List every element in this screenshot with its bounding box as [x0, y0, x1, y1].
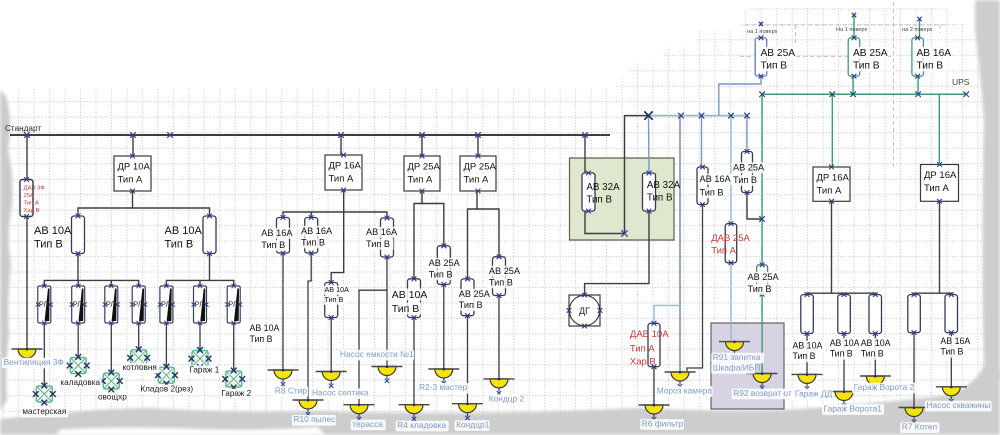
UPS wire to АВ 16А floor2	[917, 76, 919, 94]
main bus Стандарт	[10, 134, 610, 136]
breaker АВ 10А-6	[408, 276, 421, 320]
svg-text:R8 Стир: R8 Стир	[275, 385, 308, 395]
label ДАВ 10А red	[630, 329, 669, 368]
svg-text:ДР 25А: ДР 25А	[464, 162, 497, 173]
breaker АВ 25А-low	[757, 262, 768, 296]
node transfer point	[644, 111, 652, 119]
label ДАВ 25А red	[711, 233, 750, 257]
svg-text:АВ 25А: АВ 25А	[761, 48, 796, 59]
svg-text:АВ 16А: АВ 16А	[301, 226, 333, 236]
breaker АВ 16А-r	[697, 165, 708, 207]
svg-text:Тип В: Тип В	[459, 300, 483, 310]
svg-text:Тип А: Тип А	[630, 344, 655, 355]
svg-text:Тип В: Тип В	[917, 61, 944, 72]
svg-text:РЛ: РЛ	[195, 300, 204, 309]
label АВ 25А-low	[746, 272, 780, 295]
node on bus x=478	[475, 132, 481, 138]
svg-text:ДГ: ДГ	[579, 306, 590, 316]
svg-text:АВ 10А: АВ 10А	[793, 341, 823, 351]
node on blue bus x=701.5	[699, 113, 705, 119]
wire transfer node to АВ 32А-2	[648, 116, 651, 173]
relay bar 1 right	[78, 280, 139, 286]
label АВ 10А-r1	[791, 341, 824, 363]
svg-text:АВ 25А: АВ 25А	[489, 266, 521, 276]
svg-text:АВ 25А: АВ 25А	[459, 289, 491, 299]
breaker ДАВ 10А	[648, 321, 660, 369]
svg-text:мастерская: мастерская	[22, 407, 66, 416]
svg-text:АВ 10А: АВ 10А	[165, 225, 203, 237]
wire ДР 25А-2 to АВ 25А-r	[477, 209, 499, 257]
label АВ 16А-r	[698, 174, 732, 199]
ATS cabinet box (green)	[570, 158, 675, 240]
lamp R91	[719, 341, 750, 359]
breaker ДАВ 25А	[725, 221, 737, 265]
svg-text:АВ 10А: АВ 10А	[830, 338, 860, 348]
label АВ 25А-r	[487, 266, 521, 289]
breaker АВ 10А-r2	[838, 292, 851, 336]
load мастерская	[33, 383, 56, 406]
breaker АВ 32А-1	[582, 171, 595, 214]
wire АВ 25А-low to lamp R92	[761, 294, 763, 373]
svg-text:R10 пылес: R10 пылес	[293, 414, 335, 424]
svg-text:АВ 25А: АВ 25А	[733, 163, 765, 173]
svg-text:каладовка: каладовка	[60, 378, 100, 387]
UPS cabinet box (lavender) Шкаф ИБП	[711, 323, 784, 409]
label АВ 25А floor1	[759, 47, 796, 72]
svg-text:АВ 10А: АВ 10А	[861, 338, 891, 348]
relay РЛ2	[70, 284, 87, 325]
wire РЛ4 to котловня	[138, 323, 140, 350]
label Кондцр1	[455, 420, 490, 431]
label R8 Стир	[273, 385, 308, 396]
label Шкафа ИБП	[711, 362, 760, 373]
breaker АВ 16А-r5	[945, 292, 958, 335]
label Вентиляция 3Ф	[2, 357, 64, 368]
svg-text:Вентиляция 3Ф: Вентиляция 3Ф	[4, 357, 64, 367]
wire bus to АВ 32А-1	[584, 135, 586, 173]
relay РЛ6	[192, 284, 209, 325]
relay РЛ1	[36, 284, 53, 325]
UPS wire to ДР 16А-r2	[938, 94, 940, 163]
wire ДР 10А to АВ 10А-1	[78, 191, 133, 216]
svg-text:Тип В: Тип В	[489, 278, 513, 288]
label АВ 10А-6	[390, 289, 428, 316]
svg-text:Тип В: Тип В	[250, 334, 273, 344]
breaker АВ 25А-l	[461, 277, 474, 319]
wire ДР 25А-2 to АВ 25А-l	[468, 191, 478, 279]
breaker АВ r4	[908, 292, 921, 335]
breaker АВ 25А floor1	[755, 35, 767, 78]
svg-text:Мороз камера: Мороз камера	[657, 386, 713, 396]
breaker АВ 10А-5	[325, 280, 338, 320]
wire АВ 16А-3 to lamp Насос емкости	[386, 257, 388, 367]
svg-text:РЛ: РЛ	[161, 300, 170, 309]
wire АВ 16А-2 to lamp R10	[308, 253, 311, 400]
svg-text:Тип В: Тип В	[392, 303, 419, 315]
load котловня	[127, 346, 150, 369]
stub wire to floor 1	[853, 15, 855, 38]
node on blue bus x=681	[678, 113, 684, 119]
label R10 пылес	[292, 414, 336, 425]
node UPS feed	[759, 216, 765, 222]
RCD ДР 16А	[325, 153, 362, 193]
wire bus to ДР 10А	[132, 135, 134, 156]
lamp R6 фильтр	[639, 404, 670, 422]
wire АВ 10А-r2 to lamp Ворота1	[843, 334, 845, 392]
svg-text:терасса: терасса	[352, 419, 383, 429]
svg-text:АВ 10А: АВ 10А	[325, 285, 350, 294]
svg-text:ДАВ 10А: ДАВ 10А	[630, 329, 669, 340]
label АВ 10А-5	[323, 285, 350, 305]
node on bus x=27	[24, 132, 30, 138]
svg-text:Шкафа/ИБП: Шкафа/ИБП	[713, 362, 761, 372]
wire ДР 16А to АВ 16А-1	[283, 190, 344, 218]
load Гараж 1	[189, 347, 212, 370]
wire ДАВ 25А to lamp R91	[730, 263, 732, 342]
label R4 кладовка	[396, 420, 449, 431]
label Гараж Ворота 2	[852, 382, 919, 393]
label Насос септика	[311, 388, 373, 399]
load Кладов 2(рез)	[155, 364, 178, 387]
label Насос скважины	[925, 400, 992, 411]
svg-text:РЛ: РЛ	[106, 300, 115, 309]
label R7 Котел	[900, 422, 939, 433]
label АВ 10А-r3	[859, 338, 892, 360]
load овощхр	[100, 370, 123, 393]
svg-text:Хар В: Хар В	[630, 357, 656, 368]
wire drop to РЛ3	[110, 280, 112, 286]
svg-text:Тип В: Тип В	[165, 239, 194, 251]
label АВ 10А-r2	[828, 338, 861, 360]
svg-text:Тип В: Тип В	[830, 349, 853, 359]
svg-text:Кладов 2(рез): Кладов 2(рез)	[140, 385, 193, 394]
wire АВ 10А-6 to lamp R4	[413, 318, 415, 405]
riser wire to transfer node	[625, 116, 649, 234]
wire ДР 10А to АВ 10А-2	[133, 208, 210, 216]
label АВ 25А-l	[457, 289, 491, 311]
node on UPS bus x=832.3	[830, 91, 836, 97]
svg-text:АВ 25А: АВ 25А	[748, 272, 780, 282]
svg-text:АВ 16А: АВ 16А	[700, 174, 732, 184]
node on blue bus x=731	[728, 113, 734, 119]
bar to АВ 16А-r5	[940, 293, 952, 294]
label Насос емкости №1	[339, 349, 415, 360]
svg-text:ДР 16А: ДР 16А	[329, 161, 362, 172]
torn white dip bottom-left	[56, 427, 325, 435]
RCD ДР 25А-1	[404, 154, 440, 194]
svg-text:на 2 поверх: на 2 поверх	[902, 27, 933, 33]
label R6 фильтр	[640, 418, 684, 429]
node on blue bus x=747	[744, 113, 750, 119]
load каладовка	[67, 354, 90, 377]
svg-text:Хар В: Хар В	[24, 208, 40, 214]
wire sub-bus riser to АВ 25А floor1	[719, 76, 761, 115]
label АВ 25А floor1-2	[852, 47, 889, 72]
wire АВ 10А-r3 to lamp Ворота 2	[874, 334, 876, 377]
svg-text:Тип В: Тип В	[733, 175, 757, 185]
svg-text:АВ 16А: АВ 16А	[917, 48, 952, 59]
stub tick floor 1	[760, 22, 762, 26]
wire ДАВ 10А to lamp R6 фильтр	[653, 367, 655, 405]
svg-text:Гараж Ворота1: Гараж Ворота1	[824, 404, 883, 414]
node stub floor1	[759, 22, 763, 26]
lamp Насос емкости №1	[372, 365, 403, 383]
svg-text:овощхр: овощхр	[98, 393, 127, 402]
svg-text:Стандарт: Стандарт	[5, 124, 41, 133]
label R2-3 мастер	[418, 382, 471, 393]
lamp R92	[747, 372, 778, 390]
lamp Мороз камера	[665, 371, 696, 389]
wire branch to lamp терасса	[359, 290, 387, 405]
svg-text:ДР 16А: ДР 16А	[924, 170, 957, 181]
label котловня	[121, 363, 159, 373]
wire РЛ1 to мастерская	[43, 323, 45, 386]
svg-text:R2-3 мастер: R2-3 мастер	[419, 382, 467, 392]
svg-text:Тип А: Тип А	[711, 246, 736, 257]
wire r4 to lamp R7 Котел	[913, 333, 915, 408]
svg-text:Насос скважины: Насос скважины	[927, 400, 991, 410]
label Мороз камера	[655, 386, 712, 397]
svg-text:Тип А: Тип А	[118, 175, 143, 186]
lamp Гараж ДД	[792, 373, 823, 391]
wire АВ 25А-l to lamp Кондцр1	[467, 316, 469, 404]
wire drop to АВ 16А-2	[310, 212, 312, 218]
page boundary dashed lines	[740, 2, 945, 170]
RCD ДР 16А-r1	[813, 165, 850, 204]
breaker АВ 10А-1	[72, 214, 85, 256]
svg-text:на 1 поверх: на 1 поверх	[747, 29, 778, 35]
svg-text:АВ 16А: АВ 16А	[366, 227, 398, 237]
breaker АВ 25А-mid	[437, 243, 450, 286]
wire ДР 25А-1 to АВ 25А-mid	[422, 204, 444, 246]
svg-text:РЛ: РЛ	[39, 300, 48, 309]
label АВ 32А-2	[647, 180, 681, 204]
UPS wire to АВ 25А floor1-2	[852, 76, 854, 94]
svg-text:Насос емкости №1: Насос емкости №1	[340, 349, 414, 359]
label R92 возврат от ИБП	[732, 388, 817, 399]
node ATS return	[621, 230, 627, 236]
wire sub-bus to Мороз камера lamp	[679, 116, 681, 372]
svg-text:Тип В: Тип В	[301, 238, 325, 248]
breaker АВ 16А-1	[277, 215, 290, 255]
svg-text:Тип В: Тип В	[647, 193, 673, 204]
node stub floor2	[917, 17, 921, 21]
svg-text:Тип В: Тип В	[861, 349, 884, 359]
node on UPS bus x=918.1	[915, 91, 921, 97]
svg-text:R91 запитка: R91 запитка	[713, 352, 761, 362]
lamp R8 Стир	[268, 369, 299, 387]
wire РЛ7 to Гараж 2	[233, 323, 235, 371]
label R91 запитка	[711, 352, 764, 363]
svg-text:R4 кладовка: R4 кладовка	[397, 420, 446, 430]
wire branch to ДАВ 10А	[654, 305, 680, 323]
wire АВ 16А-r5 to lamp Насос скважины	[950, 333, 952, 387]
label Гараж 2	[220, 389, 254, 399]
label АВ 16А-3	[365, 227, 399, 250]
svg-text:РЛ: РЛ	[228, 300, 237, 309]
UPS wire to ДР 16А-r1	[831, 94, 833, 167]
svg-text:Гараж ДД: Гараж ДД	[795, 389, 833, 399]
wire ДР 16А bar to АВ 16А-3	[344, 212, 387, 218]
RCD ДР 10А	[114, 154, 151, 194]
breaker ДАВ 3Ф 25А	[20, 177, 45, 219]
label АВ 25А-up	[732, 162, 766, 186]
label АВ 32А-1	[586, 182, 620, 206]
svg-text:Тип В: Тип В	[429, 270, 453, 280]
lamp Гараж Ворота 2	[860, 375, 891, 393]
svg-text:Тип А: Тип А	[464, 175, 489, 186]
svg-text:АВ 10А: АВ 10А	[250, 323, 280, 333]
generator ДГ	[567, 293, 603, 329]
svg-text:Тип В: Тип В	[261, 240, 285, 250]
node on UPS bus x=762.1	[759, 91, 765, 97]
lamp R2-3 мастер	[428, 368, 459, 386]
wire node to АВ 25А-low	[761, 219, 763, 265]
breaker АВ 10А-r3	[869, 292, 882, 336]
label АВ 16А-2	[300, 226, 334, 249]
label АВ 10А-1	[34, 225, 72, 251]
wire ДР 25А-1 to АВ 10А-6	[414, 191, 422, 279]
svg-text:АВ 25А: АВ 25А	[853, 48, 888, 59]
breaker АВ 16А-3	[381, 216, 394, 260]
svg-text:АВ 25А: АВ 25А	[429, 258, 461, 268]
wire sub-bus to ДАВ 25А	[730, 116, 732, 224]
svg-text:Тип В: Тип В	[793, 351, 816, 361]
svg-text:АВ 16А: АВ 16А	[940, 336, 970, 346]
breaker АВ 16А floor2	[912, 35, 924, 78]
svg-text:UPS: UPS	[952, 77, 970, 87]
svg-text:ДАВ 25А: ДАВ 25А	[711, 233, 750, 244]
label floating АВ 10А R8	[248, 323, 281, 345]
svg-text:Гараж 2: Гараж 2	[221, 389, 251, 398]
node on bus x=585	[582, 132, 588, 138]
breaker АВ 16А-2	[305, 215, 318, 255]
label АВ 16А-1	[260, 228, 294, 251]
wire АВ 10А-2 to relay bar 2	[166, 254, 209, 287]
svg-text:АВ 16А: АВ 16А	[261, 228, 293, 238]
torn paper gray band bottom	[0, 366, 1000, 435]
node on UPS bus x=853.1	[850, 91, 856, 97]
node on bus x=422	[419, 132, 425, 138]
lamp R4 кладовка	[399, 404, 430, 422]
svg-text:АВ 32А: АВ 32А	[647, 180, 681, 191]
svg-text:АВ 10А: АВ 10А	[34, 225, 72, 237]
drop to АВ 10А-r2	[843, 293, 845, 294]
svg-text:Кондцр 2: Кондцр 2	[489, 393, 525, 403]
svg-text:ДР 16А: ДР 16А	[817, 173, 850, 184]
RCD ДР 25А-2	[460, 154, 496, 194]
relay РЛ4	[130, 284, 147, 325]
svg-text:R6 фильтр: R6 фильтр	[642, 418, 684, 428]
node on bus x=341	[338, 132, 344, 138]
relay РЛ3	[103, 284, 120, 325]
svg-text:Тип А: Тип А	[924, 183, 949, 194]
UPS bus	[762, 93, 966, 95]
wire РЛ5 to Кладов 2	[165, 323, 167, 367]
wire ДАВ 3Ф to Вентиляция lamp	[26, 217, 28, 350]
UPS wire down to node	[761, 94, 763, 219]
RCD ДР 16А-r2	[921, 162, 959, 204]
wire АВ 25А-mid to lamp R2-3	[443, 284, 445, 369]
svg-text:Тип В: Тип В	[366, 239, 390, 249]
lamp Вентиляция 3Ф	[12, 348, 43, 366]
load Гараж 2	[222, 368, 245, 391]
node on bus x=133	[130, 132, 136, 138]
svg-text:Тип В: Тип В	[853, 61, 880, 72]
wire sub-bus to АВ 25А-up	[746, 116, 748, 152]
breaker АВ 32А-2	[643, 171, 656, 214]
relay РЛ7	[225, 284, 242, 325]
lamp R10 пылес	[293, 399, 324, 417]
svg-text:Тип В: Тип В	[586, 195, 612, 206]
breaker АВ 25А-up	[742, 149, 753, 195]
label овощхр	[97, 393, 128, 403]
label мастерская	[21, 407, 68, 417]
svg-text:АВ 32А: АВ 32А	[586, 182, 620, 193]
svg-text:На 1 поверх: На 1 поверх	[836, 27, 868, 33]
svg-text:РЛ: РЛ	[133, 300, 142, 309]
wire bus to ДР 16А	[340, 135, 342, 155]
wire ДР 16А-r1 to АВ 10А-r1	[807, 201, 832, 294]
node on UPS bus x=966.2	[963, 91, 969, 97]
label терасса	[351, 419, 386, 430]
label АВ 16А floor2	[915, 47, 952, 72]
svg-text:АВ 10А: АВ 10А	[392, 289, 428, 301]
svg-text:Тип А: Тип А	[329, 174, 354, 185]
breaker АВ 10А-2	[203, 214, 216, 256]
stub wire to floor 2	[919, 19, 921, 38]
wire РЛ2 to каладовка	[77, 323, 79, 358]
label Кладов 2(рез)	[139, 385, 200, 395]
svg-text:Тип В: Тип В	[748, 284, 772, 294]
wire АВ 10А-5 to lamp Насос септика	[330, 318, 332, 372]
svg-text:R7 Котел: R7 Котел	[902, 422, 938, 432]
relay РЛ5	[158, 284, 175, 325]
wire bus to ДР 25А-1	[421, 135, 423, 156]
wire АВ 16А-1 to lamp R8	[282, 253, 284, 370]
label Гараж ДД	[794, 389, 833, 400]
svg-text:Тип В: Тип В	[700, 188, 724, 198]
label АВ 10А-2	[165, 225, 203, 251]
lamp Кондцр 2	[484, 378, 515, 396]
wire АВ 16А-r to Мороз камера crossbar	[687, 205, 703, 372]
wire ДР 16А-r2 to АВ breaker r4	[914, 201, 940, 294]
svg-text:ДАВ 3Ф: ДАВ 3Ф	[24, 186, 46, 192]
bar to АВ 10А-r3	[832, 293, 876, 294]
wire РЛ6 to Гараж 1	[199, 323, 201, 351]
svg-text:Тип В: Тип В	[761, 61, 788, 72]
wire АВ 32А-2 to generator ДГ	[585, 211, 649, 295]
svg-text:Тип А: Тип А	[408, 175, 433, 186]
svg-text:Кондцр1: Кондцр1	[456, 420, 490, 430]
lamp Гараж Ворота1	[829, 390, 860, 408]
torn paper gray band right	[975, 0, 1000, 380]
breaker АВ 25А floor1-2	[848, 35, 860, 78]
label Гараж Ворота1	[822, 404, 884, 415]
svg-text:Тип А: Тип А	[817, 186, 842, 197]
svg-text:Тип В: Тип В	[34, 239, 63, 251]
wire bus to ДАВ 3Ф	[26, 135, 28, 180]
svg-text:25А: 25А	[24, 193, 35, 199]
lamp R7 Котел	[899, 406, 930, 424]
svg-text:ДР 10А: ДР 10А	[118, 162, 151, 173]
svg-text:Гараж Ворота 2: Гараж Ворота 2	[854, 382, 915, 392]
wire АВ 25А-up to UPS feed node	[747, 193, 762, 220]
svg-text:котловня: котловня	[123, 363, 157, 372]
wire АВ 32А-1 to riser	[585, 211, 625, 234]
lamp Насос скважины	[936, 386, 967, 404]
svg-text:ДР 25А: ДР 25А	[408, 162, 441, 173]
